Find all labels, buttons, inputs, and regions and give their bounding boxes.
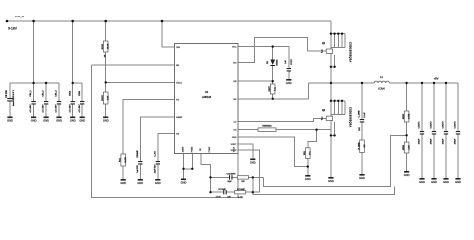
svg-text:GND: GND xyxy=(419,180,425,184)
svg-text:PGND: PGND xyxy=(191,146,193,152)
svg-text:RFB1: RFB1 xyxy=(403,144,405,150)
svg-text:150uF: 150uF xyxy=(431,138,433,144)
svg-text:GND: GND xyxy=(455,180,461,184)
svg-text:4.7u 50V: 4.7u 50V xyxy=(43,104,45,113)
svg-text:9-18V: 9-18V xyxy=(8,27,18,31)
svg-text:+5V: +5V xyxy=(434,76,439,80)
svg-text:GND: GND xyxy=(56,119,62,123)
svg-text:18.2K: 18.2K xyxy=(125,157,127,163)
svg-text:COUT1: COUT1 xyxy=(419,121,421,129)
svg-text:VOUT: VOUT xyxy=(231,144,238,146)
svg-text:4.7uF: 4.7uF xyxy=(216,197,222,199)
svg-text:RFB2: RFB2 xyxy=(403,113,405,119)
svg-text:EN: EN xyxy=(176,65,179,67)
svg-text:RCOMP: RCOMP xyxy=(237,189,245,191)
svg-text:GND: GND xyxy=(286,81,292,85)
svg-text:U1: U1 xyxy=(205,90,209,94)
svg-text:GND: GND xyxy=(31,119,37,123)
svg-text:CIN_2: CIN_2 xyxy=(43,90,45,97)
svg-text:0.1u: 0.1u xyxy=(322,49,324,53)
svg-text:GND: GND xyxy=(103,119,109,123)
svg-text:GND: GND xyxy=(43,119,49,123)
svg-text:1.87K: 1.87K xyxy=(408,113,410,119)
svg-text:10nF 50V: 10nF 50V xyxy=(154,164,156,173)
svg-text:150uF: 150uF xyxy=(443,138,445,144)
svg-text:COUT3: COUT3 xyxy=(443,121,445,129)
svg-text:4.7u 50V: 4.7u 50V xyxy=(56,104,58,113)
svg-text:GND: GND xyxy=(404,173,410,177)
svg-text:4.7u 50V: 4.7u 50V xyxy=(69,104,71,113)
svg-text:RUV1: RUV1 xyxy=(102,43,104,49)
svg-text:RAMP: RAMP xyxy=(176,116,183,119)
svg-text:R_SNB: R_SNB xyxy=(358,142,360,150)
svg-text:150uF: 150uF xyxy=(455,138,457,144)
svg-text:VCC: VCC xyxy=(232,47,237,49)
svg-text:kemet EDR 6.3 V: kemet EDR 6.3 V xyxy=(12,89,15,106)
svg-text:18.2K: 18.2K xyxy=(108,43,110,49)
svg-text:AGND: AGND xyxy=(182,146,185,152)
svg-text:GND: GND xyxy=(359,176,365,180)
svg-text:CVCC: CVCC xyxy=(291,59,293,65)
svg-text:UVLO: UVLO xyxy=(176,82,182,84)
svg-text:1%: 1% xyxy=(105,54,107,57)
svg-text:4.7u 50V: 4.7u 50V xyxy=(30,104,32,113)
svg-text:COMP: COMP xyxy=(209,146,211,152)
svg-text:150uF: 150uF xyxy=(419,138,421,144)
svg-text:C_SS: C_SS xyxy=(154,151,156,157)
svg-text:GND: GND xyxy=(70,119,76,123)
svg-text:GND: GND xyxy=(120,181,126,185)
svg-text:0.1u: 0.1u xyxy=(274,87,276,91)
svg-text:RUV2: RUV2 xyxy=(102,94,104,100)
svg-text:CSG: CSG xyxy=(232,137,237,139)
svg-text:CIN4: CIN4 xyxy=(69,90,71,96)
svg-text:COUT4: COUT4 xyxy=(455,121,457,129)
svg-text:CSD18563Q5A: CSD18563Q5A xyxy=(348,107,351,127)
svg-text:LM5118: LM5118 xyxy=(202,95,212,99)
svg-text:GND: GND xyxy=(328,179,334,183)
svg-text:GND: GND xyxy=(155,181,161,185)
svg-text:VIN: VIN xyxy=(176,47,180,49)
svg-text:CIN5: CIN5 xyxy=(79,90,81,96)
svg-text:GND: GND xyxy=(305,177,311,181)
svg-text:CCOMP2: CCOMP2 xyxy=(227,174,237,176)
svg-text:VCCX: VCCX xyxy=(234,146,236,152)
svg-text:CIN_1: CIN_1 xyxy=(30,90,32,97)
svg-text:GND: GND xyxy=(137,181,143,185)
svg-text:GND: GND xyxy=(431,180,437,184)
svg-text:CBST: CBST xyxy=(269,86,271,92)
svg-text:COUT2: COUT2 xyxy=(431,121,433,129)
svg-text:LO: LO xyxy=(234,122,237,124)
svg-text:GND: GND xyxy=(79,119,85,123)
svg-text:CRAMP: CRAMP xyxy=(136,150,139,158)
svg-text:CCOMP: CCOMP xyxy=(218,189,226,191)
svg-text:1nF 50V: 1nF 50V xyxy=(137,165,139,173)
svg-text:GND: GND xyxy=(443,180,449,184)
svg-text:5.42K: 5.42K xyxy=(238,197,244,199)
svg-text:C9 10u: C9 10u xyxy=(6,90,8,98)
svg-text:HO: HO xyxy=(233,63,237,65)
svg-text:0.1u: 0.1u xyxy=(322,116,324,120)
svg-text:0.1uF: 0.1uF xyxy=(364,112,366,118)
svg-text:1.1K: 1.1K xyxy=(408,145,410,150)
svg-text:RSENSE1: RSENSE1 xyxy=(262,126,272,128)
svg-text:C_SNB: C_SNB xyxy=(358,110,360,118)
svg-text:GND: GND xyxy=(7,119,13,123)
svg-text:5.9K: 5.9K xyxy=(108,95,110,100)
svg-text:GND: GND xyxy=(181,181,187,185)
svg-text:10m: 10m xyxy=(310,151,312,155)
svg-text:B340A: B340A xyxy=(276,59,279,66)
svg-text:6.7uH: 6.7uH xyxy=(378,88,384,90)
svg-text:4.7u 50V: 4.7u 50V xyxy=(79,104,81,113)
svg-text:GND: GND xyxy=(250,161,256,165)
svg-text:+12V_IN: +12V_IN xyxy=(15,16,24,18)
svg-text:CIN_3: CIN_3 xyxy=(56,90,58,97)
svg-text:CSD18563Q5A: CSD18563Q5A xyxy=(348,42,351,62)
